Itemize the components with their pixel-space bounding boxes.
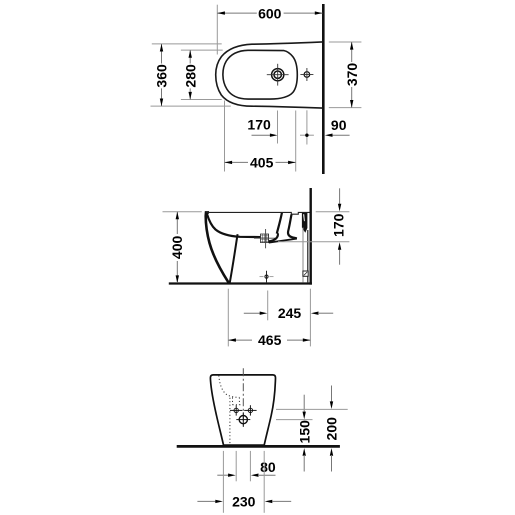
svg-text:170: 170 [247, 117, 271, 133]
svg-text:170: 170 [331, 213, 347, 237]
svg-text:245: 245 [278, 305, 302, 321]
dimension 280 (plan left inner) [181, 50, 223, 99]
interior leg line (side) [230, 234, 238, 282]
svg-text:230: 230 [232, 494, 256, 510]
floor line (side) [169, 282, 312, 284]
underside line (side) [269, 239, 297, 243]
hidden dotted channel (rear) [233, 398, 243, 405]
back strip lines (side) [303, 228, 308, 283]
dimension 370 (plan right) [329, 42, 362, 108]
svg-text:150: 150 [296, 420, 312, 444]
dimension 200 (rear) [276, 386, 348, 472]
back S-curve left (side) [269, 233, 278, 241]
floor line (rear) [177, 445, 340, 448]
outer front profile (side) [206, 212, 229, 282]
bidet outer outline (plan) [216, 42, 323, 108]
fixing hole left (rear) [230, 405, 242, 415]
svg-text:360: 360 [154, 64, 170, 88]
floor drain symbol (side) [260, 271, 274, 283]
dimension 90 (plan) [300, 110, 350, 144]
dimension 170 (plan) [247, 111, 277, 144]
back rim section block (side) [302, 213, 308, 233]
back S-curve right and underside (side) [288, 214, 297, 238]
hidden dotted vertical (rear) [229, 398, 231, 445]
drain hatch (side) [261, 234, 269, 243]
dimension 400 (side left) [163, 212, 202, 283]
svg-text:400: 400 [169, 236, 185, 260]
side hole (plan) [300, 68, 313, 81]
svg-text:405: 405 [250, 155, 274, 171]
svg-text:90: 90 [331, 117, 347, 133]
dimension 600 (plan top) [217, 5, 322, 55]
hidden dotted arc (rear) [219, 375, 240, 397]
dimension 405 (plan) [225, 101, 296, 172]
dimension 80 (rear) [217, 451, 276, 481]
svg-text:200: 200 [324, 417, 340, 441]
dimension 360 (plan left) [151, 44, 231, 106]
dimension 170 (side right) [278, 188, 349, 264]
bidet inner bowl (plan) [223, 50, 297, 99]
outlet hole (rear) [236, 412, 250, 427]
svg-text:465: 465 [258, 332, 282, 348]
faucet hole (plan) [267, 64, 289, 86]
dimension 245 (side) [244, 291, 333, 322]
fixing hole right (rear) [244, 405, 256, 415]
rim top line (side) [206, 212, 309, 214]
dimension 465 (side) [228, 289, 310, 348]
center line (rear) [242, 368, 244, 425]
rear outline [210, 375, 275, 445]
svg-text:370: 370 [344, 63, 360, 87]
wall line (side) [310, 188, 312, 285]
wall line (plan) [322, 4, 325, 174]
fixing square (side) [303, 271, 308, 276]
svg-text:600: 600 [258, 5, 282, 21]
svg-text:80: 80 [260, 459, 276, 475]
inner bowl curve (side) [207, 213, 261, 237]
dimension 230 (rear) [197, 451, 291, 513]
svg-text:280: 280 [182, 64, 198, 88]
dimension 150 (rear) [276, 395, 313, 472]
drain centerline cross (side) [254, 229, 277, 248]
